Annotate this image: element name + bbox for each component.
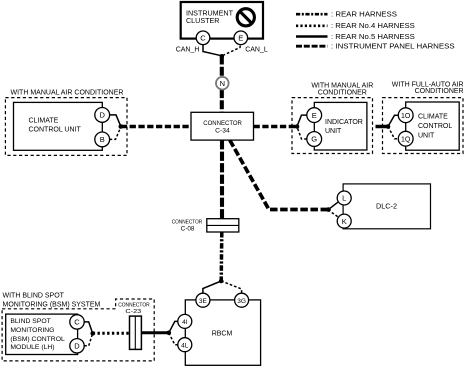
wire CAN_L from pin E (dashed) bbox=[222, 41, 241, 56]
node N (twisted-pair marker) bbox=[216, 77, 229, 90]
wire to pin 3E bbox=[203, 281, 221, 293]
dashed option box: manual A/C right bbox=[292, 98, 373, 154]
junction indicator bbox=[295, 124, 300, 129]
wire: instrument panel harness C-34 diagonal to DLC-2 bbox=[230, 140, 329, 209]
svg-text:C-08: C-08 bbox=[181, 227, 195, 233]
svg-text:E: E bbox=[238, 33, 243, 42]
svg-text:CAN_L: CAN_L bbox=[245, 47, 268, 54]
pin 1Q bbox=[398, 131, 413, 146]
svg-text:3G: 3G bbox=[237, 298, 246, 305]
pin G bbox=[307, 132, 322, 147]
label WITH MANUAL AIR CONDITIONER (right) bbox=[311, 83, 373, 97]
junction above RBCM bbox=[219, 279, 224, 284]
svg-text:D: D bbox=[74, 342, 80, 351]
svg-text:D: D bbox=[99, 111, 105, 120]
wire to pin L bbox=[328, 202, 338, 210]
dashed option box: BSM system (notched outline) bbox=[2, 299, 154, 361]
wire: instrument panel harness vertical from CAN junction to C-34 bbox=[220, 56, 224, 113]
connector C-34 bbox=[191, 112, 254, 140]
wire CAN_H from pin C bbox=[203, 41, 222, 56]
svg-text:K: K bbox=[342, 217, 347, 226]
wire from pin B (dashed) bbox=[110, 127, 121, 139]
svg-text:: REAR No.4 HARNESS: : REAR No.4 HARNESS bbox=[331, 21, 415, 30]
wire to pin 4L (dashed) bbox=[169, 333, 178, 345]
wire: instrument panel harness C-34 down to C-08 bbox=[220, 140, 224, 219]
pin 3E bbox=[196, 293, 210, 307]
DLC-2 box bbox=[343, 184, 430, 229]
pin B bbox=[95, 132, 110, 147]
junction full-auto bbox=[386, 124, 391, 129]
pin K bbox=[337, 214, 351, 228]
dashed option box: manual A/C left bbox=[5, 98, 127, 156]
svg-text:CONDITIONER: CONDITIONER bbox=[415, 88, 464, 95]
climate control unit box (full-auto) bbox=[406, 102, 460, 150]
svg-text:4L: 4L bbox=[181, 342, 189, 349]
wire to pin G (dashed) bbox=[297, 127, 307, 139]
BSM control module box bbox=[6, 314, 78, 354]
junction DLC-2 bbox=[326, 207, 331, 212]
wire to pin 4I bbox=[169, 321, 178, 332]
svg-text:4I: 4I bbox=[182, 319, 188, 326]
svg-text:: INSTRUMENT PANEL HARNESS: : INSTRUMENT PANEL HARNESS bbox=[331, 42, 455, 51]
junction BSM bbox=[90, 331, 95, 336]
pin L bbox=[337, 191, 351, 205]
pin 4L bbox=[178, 338, 192, 352]
svg-text:C: C bbox=[74, 318, 80, 327]
meter/no-entry symbol bbox=[237, 9, 254, 26]
pin 4I bbox=[178, 314, 192, 328]
wire from pin C (BSM) bbox=[84, 322, 92, 333]
pin 1O bbox=[398, 108, 413, 123]
pin C bbox=[196, 31, 210, 45]
svg-text:C: C bbox=[200, 33, 206, 42]
wire to pin 1O bbox=[388, 115, 398, 126]
wire from pin D (BSM, dashed) bbox=[84, 334, 92, 346]
svg-text:L: L bbox=[342, 194, 346, 203]
instrument cluster box bbox=[181, 2, 263, 39]
svg-text:CONNECTOR: CONNECTOR bbox=[118, 303, 150, 309]
svg-text:CONDITIONER: CONDITIONER bbox=[318, 89, 367, 96]
pin E (indicator) bbox=[307, 108, 322, 123]
svg-text:DLC-2: DLC-2 bbox=[376, 202, 397, 211]
dashed option box: full-auto A/C bbox=[383, 98, 464, 154]
svg-text:WITH BLIND SPOT: WITH BLIND SPOT bbox=[3, 293, 65, 300]
svg-text:INDICATOR: INDICATOR bbox=[325, 119, 363, 126]
svg-text:MONITORING: MONITORING bbox=[10, 327, 54, 334]
junction RBCM left bbox=[167, 331, 172, 336]
svg-text:C-34: C-34 bbox=[215, 128, 230, 135]
svg-text:CLIMATE: CLIMATE bbox=[29, 118, 59, 125]
wire: rear No.5 harness C-23 to RBCM (solid) bbox=[141, 331, 168, 334]
wire stub: harness into full-auto box bbox=[376, 125, 389, 129]
pin C (BSM) bbox=[70, 315, 84, 329]
wire to pin E (indicator) bbox=[297, 115, 307, 126]
svg-text:UNIT: UNIT bbox=[325, 128, 342, 135]
junction left A/C bbox=[119, 124, 124, 129]
wire from pin D bbox=[110, 115, 121, 126]
svg-text:: REAR No.5 HARNESS: : REAR No.5 HARNESS bbox=[331, 32, 415, 41]
label WITH FULL-AUTO AIR CONDITIONER bbox=[392, 81, 464, 95]
wire: rear harness C-08 down to RBCM (dash-dot) bbox=[219, 232, 223, 281]
pin D bbox=[95, 108, 110, 123]
junction dot below cluster bbox=[220, 54, 224, 58]
svg-text:CLIMATE: CLIMATE bbox=[418, 114, 448, 121]
svg-text:CONTROL: CONTROL bbox=[418, 123, 452, 130]
svg-text:: REAR HARNESS: : REAR HARNESS bbox=[331, 10, 397, 19]
svg-text:UNIT: UNIT bbox=[418, 133, 435, 140]
svg-text:(BSM) CONTROL: (BSM) CONTROL bbox=[10, 336, 65, 343]
pin D (BSM) bbox=[70, 339, 84, 353]
label WITH BLIND SPOT MONITORING (BSM) SYSTEM bbox=[3, 293, 101, 309]
legend line REAR No.5 HARNESS bbox=[296, 32, 415, 41]
svg-text:MODULE (LH): MODULE (LH) bbox=[10, 344, 54, 351]
connector C-23 label bbox=[118, 303, 150, 315]
svg-text:1O: 1O bbox=[401, 113, 411, 120]
svg-text:3E: 3E bbox=[199, 298, 208, 305]
svg-text:MONITORING (BSM) SYSTEM: MONITORING (BSM) SYSTEM bbox=[3, 301, 101, 308]
svg-text:BLIND SPOT: BLIND SPOT bbox=[10, 318, 50, 325]
connector C-08 bbox=[172, 219, 239, 233]
wire to pin K (dashed) bbox=[328, 210, 338, 217]
connector C-23 bbox=[130, 316, 142, 349]
legend line INSTRUMENT PANEL HARNESS bbox=[296, 42, 455, 51]
svg-text:CLUSTER: CLUSTER bbox=[186, 16, 220, 25]
legend line REAR HARNESS bbox=[296, 10, 397, 19]
svg-text:CONNECTOR: CONNECTOR bbox=[172, 220, 203, 226]
indicator unit box bbox=[314, 102, 367, 150]
wire to pin 3G (dashed) bbox=[221, 281, 241, 293]
svg-text:N: N bbox=[220, 79, 225, 88]
svg-text:B: B bbox=[100, 135, 105, 144]
svg-text:WITH MANUAL AIR CONDITIONER: WITH MANUAL AIR CONDITIONER bbox=[11, 90, 124, 97]
svg-text:E: E bbox=[312, 111, 317, 120]
wire to pin 1Q (dashed) bbox=[388, 127, 398, 139]
svg-text:CAN_H: CAN_H bbox=[176, 46, 200, 53]
climate control unit box (left) bbox=[14, 102, 103, 150]
legend line REAR No.4 HARNESS bbox=[296, 21, 415, 30]
pin E bbox=[234, 31, 248, 45]
svg-text:G: G bbox=[311, 135, 317, 144]
wire: rear No.4 harness BSM to C-23 (dotted) bbox=[93, 332, 130, 335]
svg-text:CONTROL UNIT: CONTROL UNIT bbox=[29, 127, 82, 134]
wire: instrument panel harness C-34 left to manual A/C bbox=[121, 125, 191, 129]
RBCM box bbox=[185, 300, 260, 365]
pin 3G bbox=[235, 293, 249, 307]
svg-text:CONNECTOR: CONNECTOR bbox=[203, 120, 242, 127]
wire: instrument panel harness C-34 right to indicator unit bbox=[254, 125, 298, 129]
svg-text:1Q: 1Q bbox=[401, 136, 411, 143]
svg-text:C-23: C-23 bbox=[125, 309, 142, 315]
svg-text:RBCM: RBCM bbox=[212, 330, 233, 337]
